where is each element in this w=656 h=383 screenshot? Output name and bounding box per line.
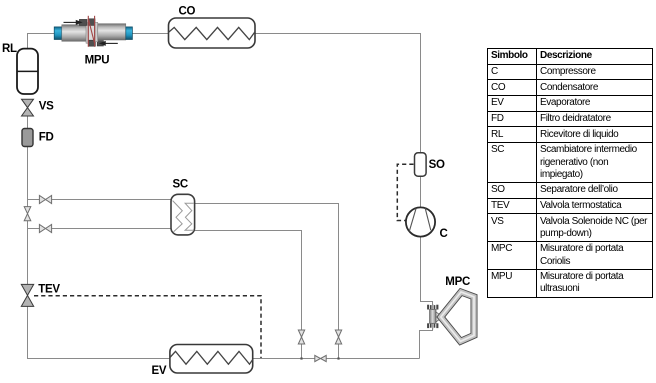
svg-text:FD: FD	[39, 132, 54, 144]
svg-text:CO: CO	[179, 5, 196, 17]
svg-text:MPC: MPC	[445, 276, 470, 288]
svg-text:SO: SO	[429, 159, 445, 171]
svg-text:TEV: TEV	[38, 283, 60, 295]
svg-text:C: C	[440, 228, 448, 240]
svg-text:EV: EV	[152, 365, 167, 377]
svg-text:SC: SC	[173, 179, 188, 191]
svg-text:MPU: MPU	[85, 55, 110, 67]
svg-text:VS: VS	[39, 101, 54, 113]
svg-text:RL: RL	[2, 43, 17, 55]
